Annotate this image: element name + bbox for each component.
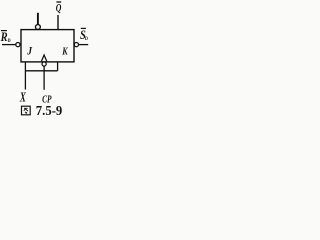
wire CP input: [43, 66, 45, 90]
caption glyph: Chinese character tu (figure): [22, 106, 31, 115]
bubble on Q output: [36, 25, 41, 30]
wire K stub: [57, 62, 59, 71]
wire X input to J: [24, 62, 26, 90]
svg-text:D: D: [85, 36, 88, 42]
label SD overline: [81, 27, 86, 29]
svg-text:Q: Q: [56, 2, 62, 14]
clock edge triangle on CP input: [41, 55, 46, 61]
bubble on RD input: [16, 43, 20, 47]
svg-text:J: J: [26, 44, 33, 58]
node Q-bar label: [56, 1, 61, 3]
wire X branch to K: [25, 70, 57, 72]
bubble on CP input: [42, 62, 46, 66]
flip-flop box U1: [21, 30, 74, 62]
wire Q output stub (top-left): [37, 13, 39, 25]
svg-text:7.5-9: 7.5-9: [36, 103, 63, 118]
svg-text:K: K: [61, 46, 68, 58]
wire Q-bar output (top-right): [57, 15, 59, 30]
bubble on SD input: [74, 43, 78, 47]
wire RD input (left): [2, 44, 16, 46]
label RD overline: [1, 30, 7, 32]
svg-text:D: D: [8, 38, 11, 44]
wire SD input (right): [79, 44, 89, 46]
svg-text:X: X: [19, 90, 27, 105]
